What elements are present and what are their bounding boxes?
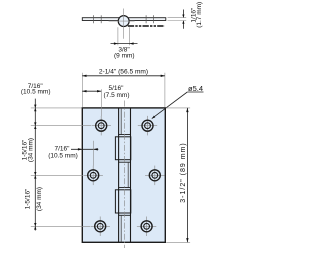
hole bottom-left: [91, 217, 110, 237]
thickness dim arrows 1/16: [182, 10, 184, 29]
right dim extension lines: [166, 108, 190, 243]
svg-text:(34 mm): (34 mm): [36, 187, 43, 211]
svg-text:(7.5 mm): (7.5 mm): [104, 92, 130, 99]
3/8 dim line and arrows: [111, 42, 138, 44]
label 1/16" (1.7 mm): [191, 2, 204, 28]
svg-text:(10.5 mm): (10.5 mm): [21, 89, 51, 96]
width dim 2-1/4: [82, 75, 165, 77]
left dim arrowheads: [34, 105, 36, 230]
hinge leaf plate: [82, 108, 165, 242]
knuckle division line: [119, 134, 131, 136]
knuckle segment 5 inner line: [120, 215, 122, 242]
svg-text:(10.5 mm): (10.5 mm): [48, 152, 78, 159]
hole mid-left: [84, 166, 103, 186]
knuckle barrel left edge: [118, 108, 120, 242]
top-view hidden leaf dashed line: [128, 25, 165, 27]
knuckle segment 3 inner line: [127, 162, 129, 187]
svg-text:(9 mm): (9 mm): [114, 53, 135, 60]
label 3/8" (9 mm): [114, 46, 135, 59]
hole mid-right: [145, 166, 164, 186]
top-view leaf bar: [82, 18, 166, 21]
svg-text:(1.7 mm): (1.7 mm): [196, 2, 203, 28]
top-view circle centerlines: [109, 9, 135, 39]
hole top-right: [138, 116, 157, 135]
knuckle barrel right edge: [130, 108, 132, 242]
label 7/16" (10.5 mm) middle: [48, 146, 78, 160]
svg-text:ø5.4: ø5.4: [188, 84, 203, 93]
5/16 dim: [82, 89, 101, 116]
knuckle division line: [119, 161, 131, 163]
middle 7/16 dim: [71, 141, 98, 166]
svg-text:2-1/4" (56.5 mm): 2-1/4" (56.5 mm): [99, 68, 148, 75]
knuckle division line: [119, 187, 131, 189]
svg-text:3-1/2" (89 mm): 3-1/2" (89 mm): [180, 142, 187, 202]
label 1-5/16" (34 mm) lower: [25, 187, 44, 211]
hole bottom-right: [137, 217, 156, 237]
width dim extension lines: [82, 73, 165, 108]
hole top-left: [92, 116, 111, 135]
label 1-5/16" (34 mm) upper: [22, 138, 35, 162]
label 5/16" (7.5 mm): [104, 85, 130, 99]
top-view screw-hole tick marks: [94, 15, 154, 23]
3/8 dim extension lines: [118, 27, 130, 45]
knuckle division line: [119, 214, 131, 216]
left dim vertical line: [34, 99, 36, 231]
left dim extension lines: [31, 108, 91, 226]
height dim 3-1/2: [186, 108, 188, 242]
hole diameter leader: [152, 92, 204, 119]
thickness dim extension lines: [168, 18, 187, 21]
knuckle box A: [115, 137, 130, 160]
label 7/16" (10.5 mm) top: [21, 83, 51, 96]
svg-text:(34 mm): (34 mm): [27, 138, 34, 162]
svg-text:1-5/16": 1-5/16": [25, 188, 32, 209]
knuckle box B: [115, 190, 130, 213]
top-view knuckle barrel circle: [118, 16, 129, 27]
pin centerline: [123, 101, 125, 249]
knuckle segment 1 inner line: [120, 108, 122, 135]
